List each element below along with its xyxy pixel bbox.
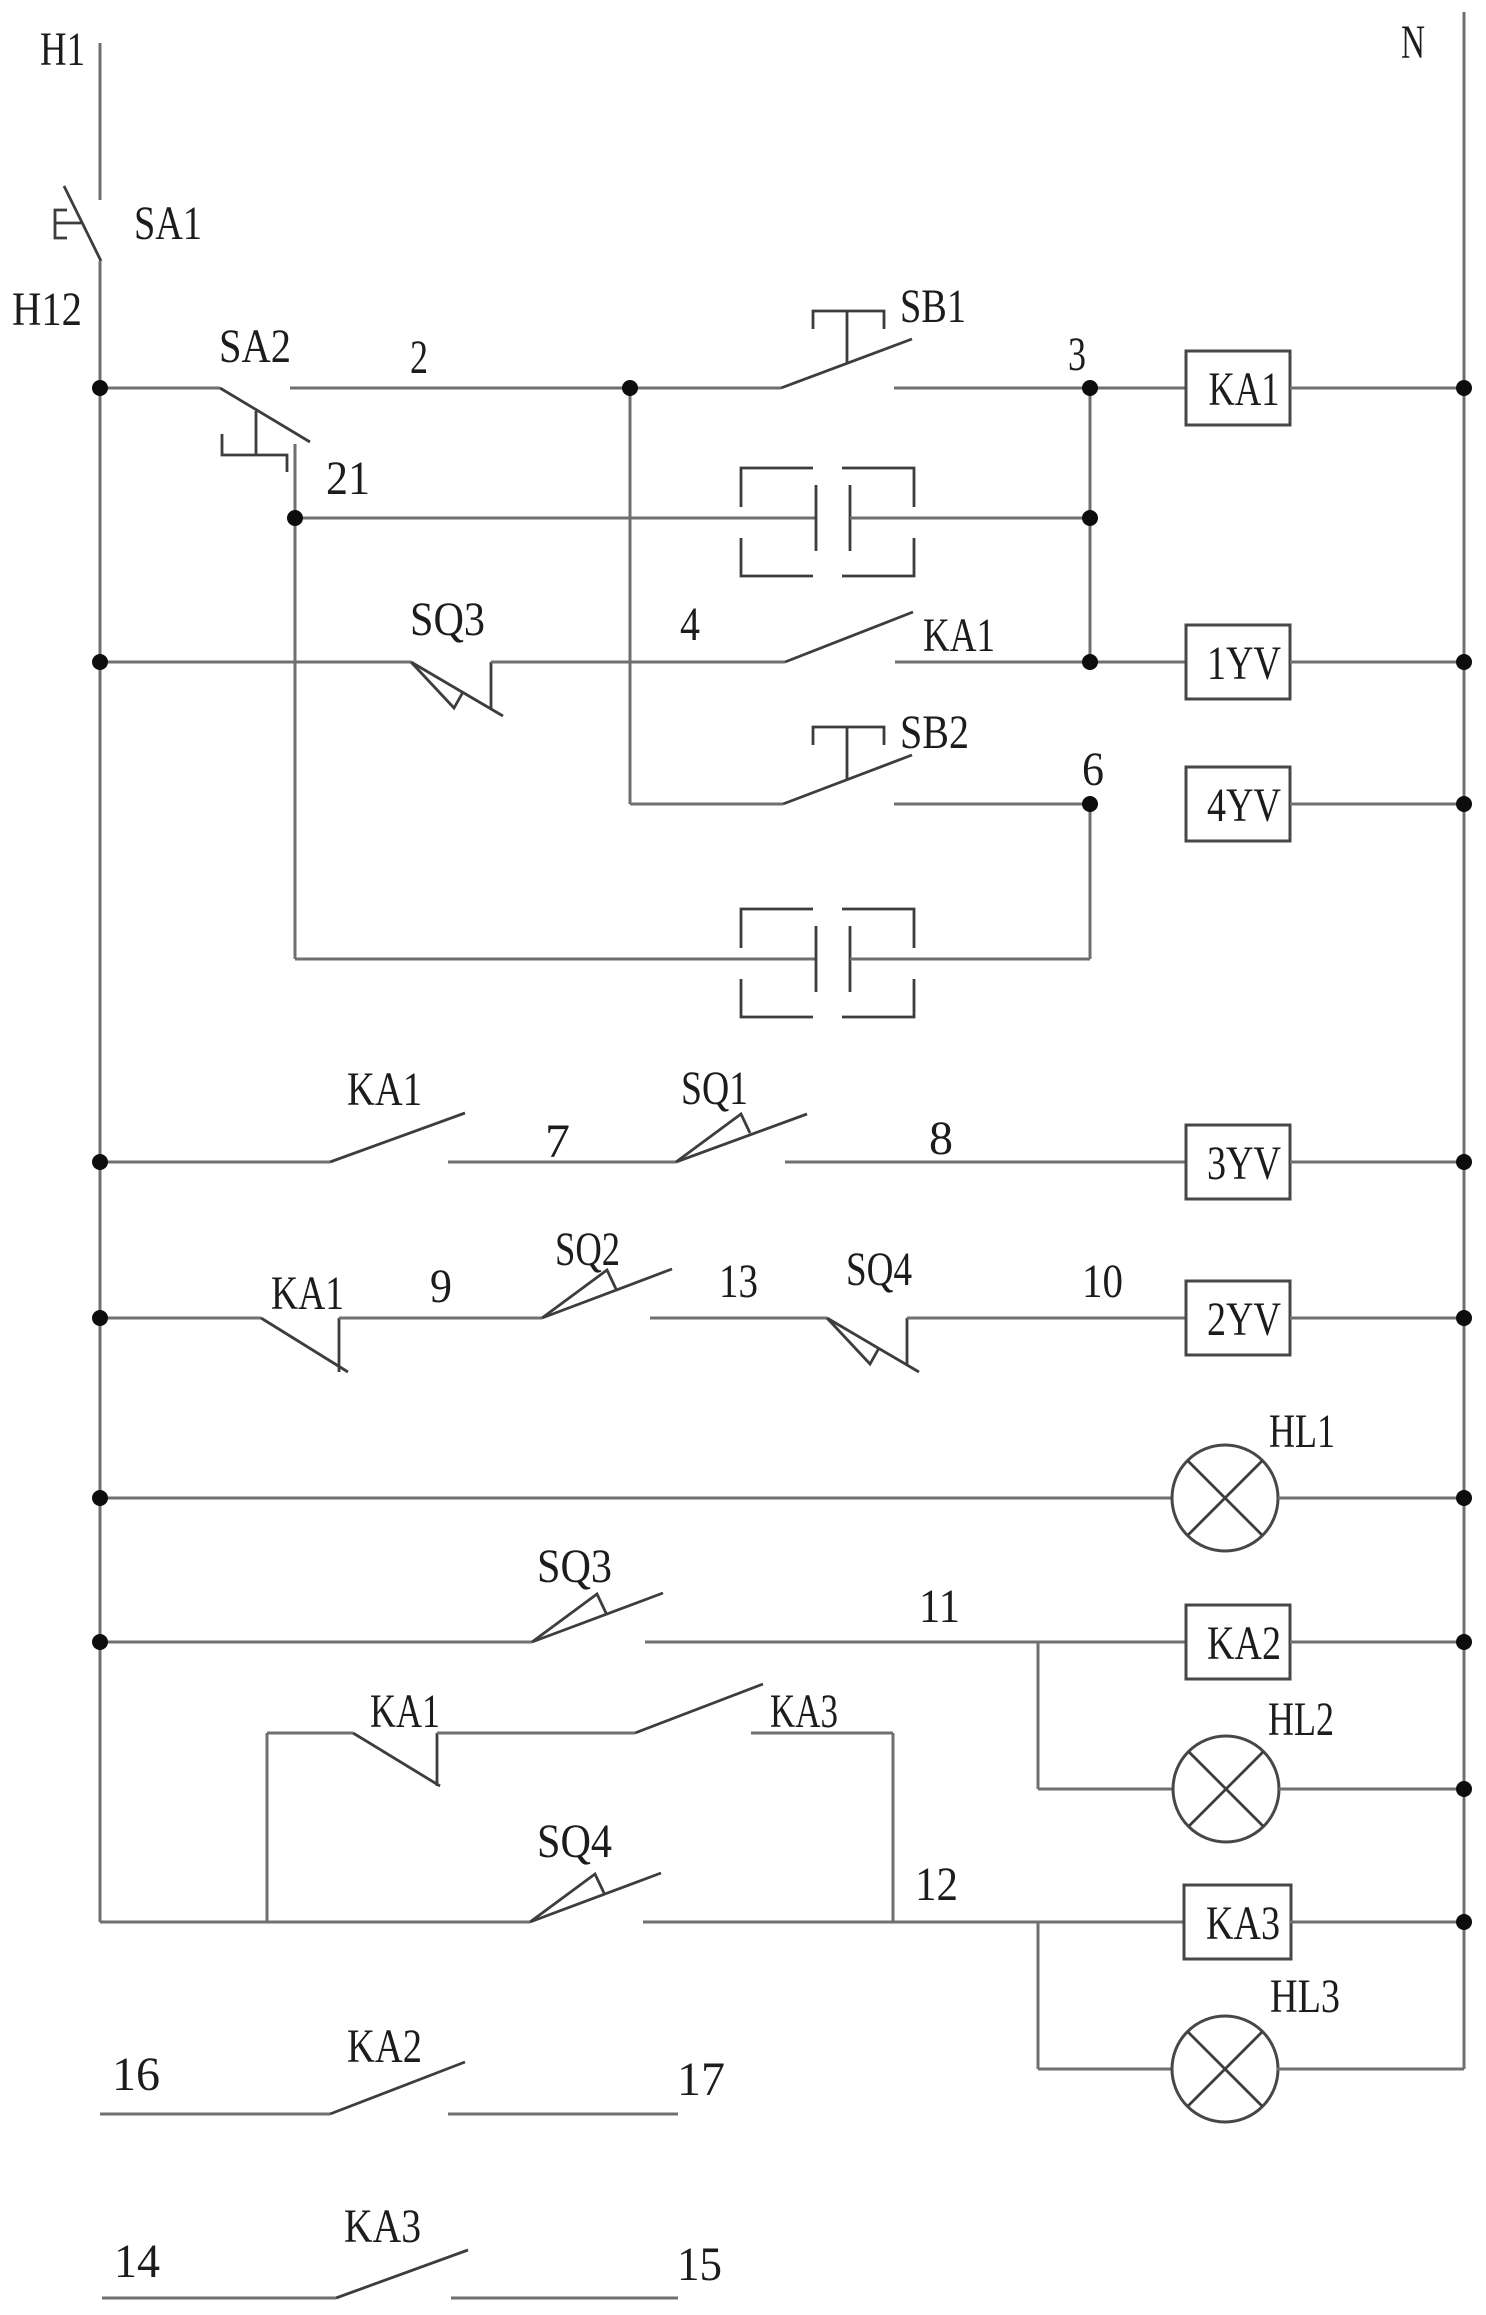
svg-text:SQ4: SQ4 bbox=[846, 1243, 912, 1296]
wire node 11 bbox=[645, 1641, 1185, 1644]
svg-text:HL1: HL1 bbox=[1269, 1405, 1335, 1458]
wire node 21 to coupling bbox=[295, 517, 816, 520]
svg-text:SQ3: SQ3 bbox=[537, 1540, 612, 1593]
wire KA3 NO right bbox=[751, 1732, 893, 1735]
KA2 rung drop to HL2 bbox=[1037, 1642, 1040, 1789]
pushbutton SB1 blade bbox=[781, 339, 912, 388]
svg-text:KA1: KA1 bbox=[923, 609, 995, 662]
wire node 6 drop bbox=[1089, 804, 1092, 959]
svg-text:KA3: KA3 bbox=[770, 1685, 838, 1738]
svg-text:13: 13 bbox=[719, 1255, 758, 1308]
switch SA1 blade bbox=[64, 186, 101, 261]
svg-text:4: 4 bbox=[680, 598, 700, 651]
indicator lamp HL1 bbox=[1172, 1445, 1278, 1551]
wire 1YV to N rail bbox=[1290, 661, 1464, 664]
svg-text:4YV: 4YV bbox=[1207, 779, 1281, 832]
contact KA2 (NO) blade floating bbox=[330, 2062, 465, 2114]
svg-text:14: 14 bbox=[114, 2235, 160, 2288]
wire 3YV to N rail bbox=[1290, 1161, 1464, 1164]
SQ3 actuator arrow bbox=[411, 662, 463, 708]
wire SQ3 to KA1 contact bbox=[491, 661, 785, 664]
wire node 16 bbox=[100, 2113, 330, 2116]
wire 4YV to N rail bbox=[1290, 803, 1464, 806]
junction dots N rail bbox=[1456, 380, 1472, 396]
coupling 2 to node 6 wire bbox=[850, 958, 1090, 961]
svg-text:N: N bbox=[1401, 16, 1425, 69]
svg-text:HL3: HL3 bbox=[1270, 1970, 1340, 2023]
wire KA1 NC to KA3 NO bbox=[437, 1732, 635, 1735]
wire H12 to SQ3 NO bbox=[100, 1641, 532, 1644]
svg-text:7: 7 bbox=[545, 1115, 570, 1168]
wire to SB2 bbox=[630, 803, 783, 806]
wire H12 to KA1 contact bbox=[100, 1161, 330, 1164]
contact KA1 (NO) blade rung6 bbox=[330, 1113, 465, 1162]
wire node 13 bbox=[650, 1317, 827, 1320]
SQ3 fixed contact bar bbox=[490, 662, 493, 709]
wire HL1 to N rail bbox=[1278, 1497, 1464, 1500]
svg-text:8: 8 bbox=[929, 1112, 953, 1165]
left supply rail H12 (lower segment) bbox=[99, 261, 102, 1922]
branch left vertical bbox=[266, 1733, 269, 1922]
pushbutton SB2 blade bbox=[783, 755, 912, 804]
limit switch SQ2 (NO) blade bbox=[542, 1269, 672, 1318]
wire node 21 vertical bbox=[294, 444, 297, 959]
svg-text:KA3: KA3 bbox=[1206, 1897, 1280, 1950]
svg-text:KA1: KA1 bbox=[370, 1685, 440, 1738]
svg-text:9: 9 bbox=[430, 1260, 452, 1313]
limit switch SQ3 (NO) blade rung9 bbox=[532, 1593, 663, 1642]
KA3 rung drop to HL3 bbox=[1037, 1922, 1040, 2069]
svg-text:KA2: KA2 bbox=[1207, 1617, 1281, 1670]
wire node 14 bbox=[102, 2297, 336, 2300]
branch right vertical bbox=[892, 1733, 895, 1922]
contact KA3 (NO) blade bbox=[635, 1684, 763, 1733]
SQ1 actuator arrow bbox=[676, 1114, 750, 1162]
svg-text:2YV: 2YV bbox=[1207, 1293, 1281, 1346]
svg-text:12: 12 bbox=[915, 1858, 958, 1911]
svg-text:SQ2: SQ2 bbox=[555, 1223, 620, 1276]
KA1 NC fixed bar bbox=[338, 1318, 341, 1372]
svg-text:SQ1: SQ1 bbox=[681, 1062, 748, 1115]
wire to HL2 bbox=[1038, 1788, 1174, 1791]
contact KA3 (NO) blade floating bbox=[336, 2250, 468, 2298]
svg-text:HL2: HL2 bbox=[1268, 1693, 1334, 1746]
wire SB2 to node 6 bbox=[894, 803, 1090, 806]
svg-text:10: 10 bbox=[1082, 1255, 1123, 1308]
svg-text:3YV: 3YV bbox=[1207, 1137, 1281, 1190]
svg-text:1YV: 1YV bbox=[1207, 637, 1281, 690]
wire node 17 bbox=[448, 2113, 678, 2116]
wire KA3 to N rail bbox=[1290, 1921, 1464, 1924]
svg-text:KA1: KA1 bbox=[271, 1267, 344, 1320]
coupling 1 to node 3 wire bbox=[850, 517, 1090, 520]
svg-text:SQ3: SQ3 bbox=[410, 593, 485, 646]
junction dot node 21 bbox=[287, 510, 303, 526]
wire node 2 drop to SB2 bbox=[629, 388, 632, 804]
indicator lamp HL2 bbox=[1173, 1736, 1279, 1842]
wire HL2 to N rail bbox=[1279, 1788, 1464, 1791]
svg-text:11: 11 bbox=[919, 1580, 960, 1633]
wire HL3 to N rail corner bbox=[1277, 2068, 1464, 2071]
contact KA1 (NC) blade bbox=[261, 1318, 348, 1372]
svg-text:2: 2 bbox=[410, 331, 428, 384]
wire node 2 bbox=[290, 387, 781, 390]
valve coil 3YV bbox=[1186, 1125, 1290, 1199]
wire to HL3 bbox=[1038, 2068, 1172, 2071]
right supply rail N bbox=[1463, 12, 1466, 2069]
wire SB1 to node 3 bbox=[894, 387, 1186, 390]
KA1 NC sub fixed bar bbox=[436, 1733, 439, 1786]
relay coil KA1 bbox=[1186, 351, 1290, 425]
switch SA1 manual operator bbox=[55, 210, 81, 238]
svg-text:17: 17 bbox=[677, 2053, 725, 2106]
junction dots H12 rail bbox=[92, 380, 108, 396]
SA2 operator bbox=[222, 411, 287, 472]
wire node 3 vertical bbox=[1089, 388, 1092, 662]
limit switch SQ4 (NC) blade bbox=[827, 1318, 919, 1372]
wire H12 to KA1 NC bbox=[100, 1317, 261, 1320]
wire node 12 bbox=[643, 1921, 1183, 1924]
SB2 operator bbox=[813, 727, 884, 779]
contact KA1 (NO) blade bbox=[785, 612, 913, 662]
wire node 21 to coupling 2 bbox=[295, 958, 816, 961]
mechanical coupling symbol 2 bbox=[741, 909, 813, 948]
left supply rail H1 (upper segment) bbox=[99, 43, 102, 200]
wire node 10 bbox=[907, 1317, 1186, 1320]
wire H12 to HL1 bbox=[100, 1497, 1172, 1500]
wire branch to KA1 NC bbox=[267, 1732, 353, 1735]
relay coil KA3 bbox=[1184, 1885, 1291, 1959]
valve coil 1YV bbox=[1186, 625, 1290, 699]
svg-text:KA1: KA1 bbox=[347, 1063, 422, 1116]
svg-text:SA2: SA2 bbox=[219, 320, 291, 373]
SQ3 rung9 actuator arrow bbox=[532, 1594, 606, 1642]
wire KA2 to N rail bbox=[1290, 1641, 1464, 1644]
svg-text:SQ4: SQ4 bbox=[537, 1815, 612, 1868]
SB1 operator bbox=[813, 311, 884, 363]
limit switch SQ3 (NC) blade bbox=[411, 662, 503, 716]
svg-text:SA1: SA1 bbox=[134, 197, 202, 250]
wire H12 to SQ4 NO bbox=[100, 1921, 530, 1924]
junction dot node 2 bbox=[622, 380, 638, 396]
wire node 7 bbox=[448, 1161, 676, 1164]
indicator lamp HL3 bbox=[1172, 2016, 1278, 2122]
wire node 15 bbox=[451, 2297, 678, 2300]
relay coil KA2 bbox=[1186, 1605, 1290, 1679]
svg-text:SB1: SB1 bbox=[900, 280, 966, 333]
svg-text:3: 3 bbox=[1068, 328, 1086, 381]
svg-text:H1: H1 bbox=[40, 23, 85, 76]
wire H12 to SQ3 bbox=[100, 661, 411, 664]
svg-text:H12: H12 bbox=[12, 283, 82, 336]
selector switch SA2 blade bbox=[220, 388, 310, 442]
SQ4 rung10 actuator arrow bbox=[530, 1874, 604, 1922]
svg-text:15: 15 bbox=[677, 2238, 722, 2291]
valve coil 4YV bbox=[1186, 767, 1290, 841]
svg-text:21: 21 bbox=[326, 452, 370, 505]
wire KA1 coil to N rail bbox=[1290, 387, 1464, 390]
svg-text:KA2: KA2 bbox=[347, 2020, 422, 2073]
svg-text:16: 16 bbox=[112, 2048, 160, 2101]
svg-text:6: 6 bbox=[1082, 743, 1104, 796]
wire H12 to SA2 bbox=[100, 387, 220, 390]
wire 2YV to N rail bbox=[1290, 1317, 1464, 1320]
contact KA1 (NC) blade sub bbox=[353, 1733, 440, 1786]
limit switch SQ4 (NO) blade rung10 bbox=[530, 1873, 661, 1922]
wire node 8 bbox=[785, 1161, 1186, 1164]
SQ4 fixed contact bar bbox=[906, 1318, 909, 1365]
SQ2 actuator arrow bbox=[542, 1270, 616, 1318]
svg-text:SB2: SB2 bbox=[900, 706, 969, 759]
limit switch SQ1 (NO) blade bbox=[676, 1114, 807, 1162]
svg-text:KA1: KA1 bbox=[1209, 363, 1280, 416]
valve coil 2YV bbox=[1186, 1281, 1290, 1355]
wire KA1 contact to 1YV bbox=[895, 661, 1186, 664]
junction dots node 3 column bbox=[1082, 380, 1098, 396]
mechanical coupling symbol 1 bbox=[741, 468, 813, 507]
wire node 9 bbox=[339, 1317, 542, 1320]
SQ4 actuator arrow bbox=[827, 1318, 879, 1364]
svg-text:KA3: KA3 bbox=[344, 2200, 421, 2253]
